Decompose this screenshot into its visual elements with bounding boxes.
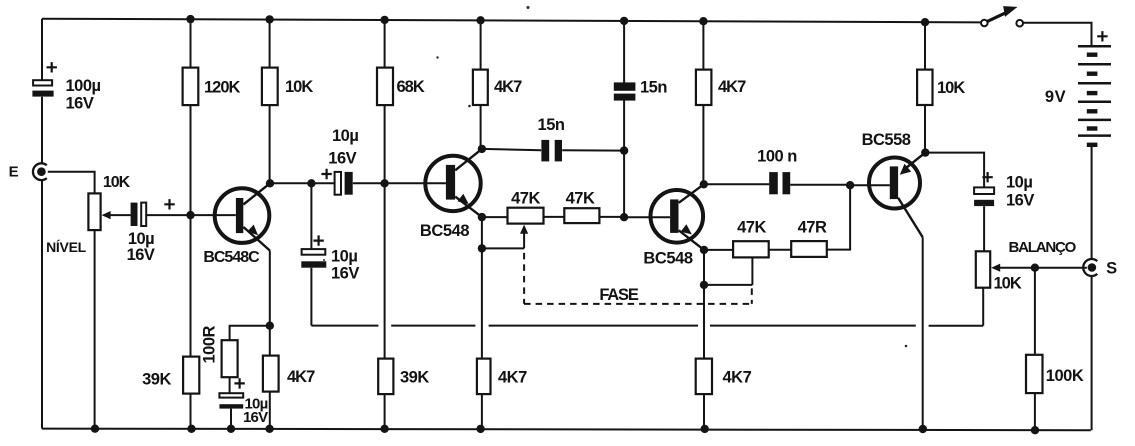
- wire Q4 emitter to output cap: [925, 153, 984, 252]
- node Q4 base: [846, 181, 854, 189]
- node top rail 15n: [620, 17, 628, 25]
- capacitor 15n series: [541, 140, 562, 162]
- svg-text:47R: 47R: [798, 219, 827, 237]
- wire coupling cap to Q1 base: [146, 214, 236, 216]
- svg-text:BC548: BC548: [643, 250, 693, 268]
- svg-text:39K: 39K: [142, 370, 171, 388]
- svg-text:100R: 100R: [201, 325, 219, 363]
- svg-text:100µ: 100µ: [66, 77, 101, 95]
- svg-text:4K7: 4K7: [287, 368, 315, 386]
- wire Q2 collector to 15n: [482, 149, 624, 151]
- wire Q1 emitter column: [269, 251, 271, 429]
- svg-text:10µ: 10µ: [331, 248, 357, 266]
- wire feedback line: [311, 288, 983, 326]
- label 10µ 16V (bypass): [243, 396, 268, 427]
- wire battery to S jack riser: [1091, 147, 1093, 430]
- node 39K2 bottom ground: [380, 425, 388, 433]
- svg-text:10µ: 10µ: [332, 127, 358, 145]
- node wiper tap Q2: [478, 244, 486, 252]
- jack S output: [1083, 259, 1097, 276]
- svg-text:BALANÇO: BALANÇO: [1009, 239, 1077, 256]
- node top rail 120K: [186, 15, 194, 23]
- node bypass cap ground: [227, 425, 235, 433]
- wire 10K right column: [924, 22, 926, 152]
- resistor 4K7 (Q3 emitter): [696, 359, 712, 395]
- wire dashed gang link right: [751, 288, 753, 304]
- node Q4 emitter: [921, 148, 929, 156]
- svg-text:10µ: 10µ: [1006, 174, 1032, 192]
- svg-text:16V: 16V: [331, 265, 359, 283]
- svg-text:15n: 15n: [538, 116, 565, 134]
- node 4K7 Q2 bottom ground: [476, 425, 484, 433]
- node Q2 emitter: [478, 213, 486, 221]
- svg-text:NÍVEL: NÍVEL: [46, 239, 86, 255]
- node top rail 68K: [380, 16, 388, 24]
- transistor Q3 BC548: [651, 184, 705, 250]
- resistor 39K (second stage): [378, 359, 393, 395]
- node top rail 10K: [265, 15, 273, 23]
- potentiometer NÍVEL 10K: [88, 193, 130, 230]
- label 10µ 16V (output): [1006, 174, 1034, 210]
- wire Q4 collector drop: [922, 237, 924, 429]
- capacitor 100n: [769, 172, 790, 194]
- wire bottom ground rail: [42, 429, 1091, 431]
- wire left riser upper: [41, 19, 43, 80]
- svg-text:BC548: BC548: [420, 222, 470, 240]
- node top rail 4K7b: [699, 17, 707, 25]
- capacitor 15n shunt: [614, 82, 636, 100]
- potentiometer 47K (fase A): [482, 208, 544, 249]
- transistor Q4 BC558: [869, 153, 925, 238]
- svg-text:16V: 16V: [328, 150, 356, 168]
- svg-text:4K7: 4K7: [723, 369, 752, 387]
- wire 47K chain B: [769, 185, 850, 250]
- resistor 4K7 (Q2 emitter): [477, 359, 491, 395]
- node Q4 collector ground: [919, 425, 927, 433]
- capacitor 10µ 16V input coupling: [131, 199, 175, 226]
- transistor Q1 BC548C: [215, 183, 270, 250]
- node Q1 collector: [266, 179, 274, 187]
- wire Q3 collector line: [704, 183, 890, 186]
- label 100µ 16V: [66, 77, 101, 113]
- svg-text:BC558: BC558: [862, 131, 911, 149]
- wire E jack to volume pot: [48, 172, 95, 194]
- svg-text:16V: 16V: [127, 246, 155, 264]
- label 10µ 16V (feedback): [331, 248, 359, 283]
- node Q2 base: [380, 179, 388, 187]
- wire 100K column: [1034, 268, 1036, 430]
- wire dashed gang link bottom: [524, 303, 752, 305]
- svg-text:9V: 9V: [1045, 88, 1066, 106]
- node pot bottom on ground rail: [91, 425, 99, 433]
- svg-text:S: S: [1106, 259, 1117, 277]
- svg-text:10K: 10K: [103, 174, 131, 191]
- node interstage feed: [307, 179, 315, 187]
- svg-text:16V: 16V: [66, 95, 94, 113]
- svg-text:10K: 10K: [994, 275, 1022, 293]
- potentiometer BALANÇO 10K: [976, 251, 1035, 287]
- svg-text:BC548C: BC548C: [203, 249, 260, 266]
- jack E input: [33, 163, 47, 180]
- svg-text:15n: 15n: [640, 79, 667, 97]
- wire 10K/Q1-collector column: [269, 19, 271, 183]
- wire Q1 collector line to Q2 base: [270, 182, 446, 184]
- svg-text:47K: 47K: [737, 219, 766, 237]
- speck artifacts: [323, 6, 907, 347]
- wire 4K7 top column (Q2 collector): [480, 20, 482, 149]
- svg-text:47K: 47K: [511, 190, 540, 208]
- node top rail 10K right: [921, 18, 929, 26]
- label 10µ 16V (interstage): [328, 127, 358, 168]
- capacitor 100µ 16V input supply: [32, 62, 57, 97]
- capacitor 10µ 16V (emitter bypass Q1): [219, 378, 244, 408]
- switch SPST: [981, 6, 1023, 26]
- wire top supply rail: [42, 19, 981, 23]
- wire feedback cap drop: [310, 183, 312, 325]
- svg-text:16V: 16V: [243, 409, 268, 426]
- resistor 47K (fixed): [564, 208, 599, 223]
- node 15n junction: [620, 146, 628, 154]
- transistor Q2 BC548: [425, 149, 482, 217]
- node Q3 collector: [700, 180, 708, 188]
- svg-text:39K: 39K: [400, 368, 429, 386]
- resistor 4K7 (Q2 collector): [473, 70, 488, 105]
- resistor 10K (Q1 collector): [262, 68, 278, 106]
- resistor 68K: [377, 68, 393, 106]
- resistor 120K: [183, 68, 199, 106]
- wire pot bottom to ground rail: [94, 230, 96, 429]
- svg-text:16V: 16V: [1006, 192, 1034, 210]
- node 4K7 bottom ground: [265, 425, 273, 433]
- label 10µ 16V (input cap): [127, 230, 155, 264]
- svg-text:4K7: 4K7: [498, 368, 527, 386]
- wire Q3 emitter column: [703, 250, 705, 429]
- svg-text:100 n: 100 n: [757, 147, 797, 165]
- node Q1 emitter / 100R tap: [266, 322, 274, 330]
- wire 120K/39K column: [190, 19, 192, 429]
- battery 9V: [1078, 31, 1111, 147]
- wire Q2 emitter column: [481, 217, 483, 429]
- node top rail 4K7a: [476, 16, 484, 24]
- wire 4K7b column (Q3 collector): [702, 21, 704, 184]
- wire left riser lower: [41, 180, 43, 428]
- node Q3 emitter: [700, 246, 708, 254]
- node 39K bottom ground: [187, 425, 195, 433]
- resistor 39K (first stage): [183, 357, 199, 394]
- svg-text:120K: 120K: [204, 78, 241, 96]
- svg-text:68K: 68K: [397, 78, 425, 96]
- wire switch to battery: [1023, 23, 1091, 46]
- capacitor 10µ 16V output: [974, 172, 994, 206]
- node 4K7 Q3 bottom ground: [701, 425, 709, 433]
- resistor 100R: [222, 340, 238, 377]
- svg-text:100K: 100K: [1046, 367, 1084, 385]
- resistor 4K7 (Q3 collector): [696, 70, 712, 105]
- svg-text:FASE: FASE: [599, 286, 638, 304]
- wire dashed gang link left: [523, 253, 525, 304]
- node wiper tap Q3: [700, 281, 708, 289]
- node Q2 collector: [478, 145, 486, 153]
- svg-text:4K7: 4K7: [494, 78, 522, 96]
- wire 100R branch: [230, 326, 270, 429]
- svg-text:4K7: 4K7: [718, 78, 746, 96]
- resistor 10K (Q4 emitter): [917, 70, 932, 105]
- capacitor 10µ 16V interstage coupling: [321, 169, 352, 195]
- node Q1 base: [186, 211, 194, 219]
- svg-text:10K: 10K: [937, 79, 965, 97]
- resistor 100K: [1026, 355, 1043, 393]
- svg-text:47K: 47K: [566, 190, 595, 208]
- node Q3 base: [620, 213, 628, 221]
- node output divider: [1031, 264, 1039, 272]
- resistor 4K7 (Q1 emitter): [263, 356, 279, 392]
- wire left riser mid: [41, 97, 43, 164]
- svg-text:10K: 10K: [285, 78, 313, 96]
- resistor 47R: [791, 241, 827, 257]
- wire 47K chain: [482, 216, 670, 218]
- capacitor 10µ 16V feedback: [301, 235, 326, 267]
- wire 68K/39K column: [384, 20, 386, 429]
- wire 15n shunt column: [623, 21, 625, 217]
- potentiometer 47K (fase B): [704, 241, 769, 285]
- svg-text:E: E: [9, 164, 19, 181]
- wire output node to S jack: [1035, 267, 1087, 269]
- node 100K bottom ground: [1031, 426, 1039, 434]
